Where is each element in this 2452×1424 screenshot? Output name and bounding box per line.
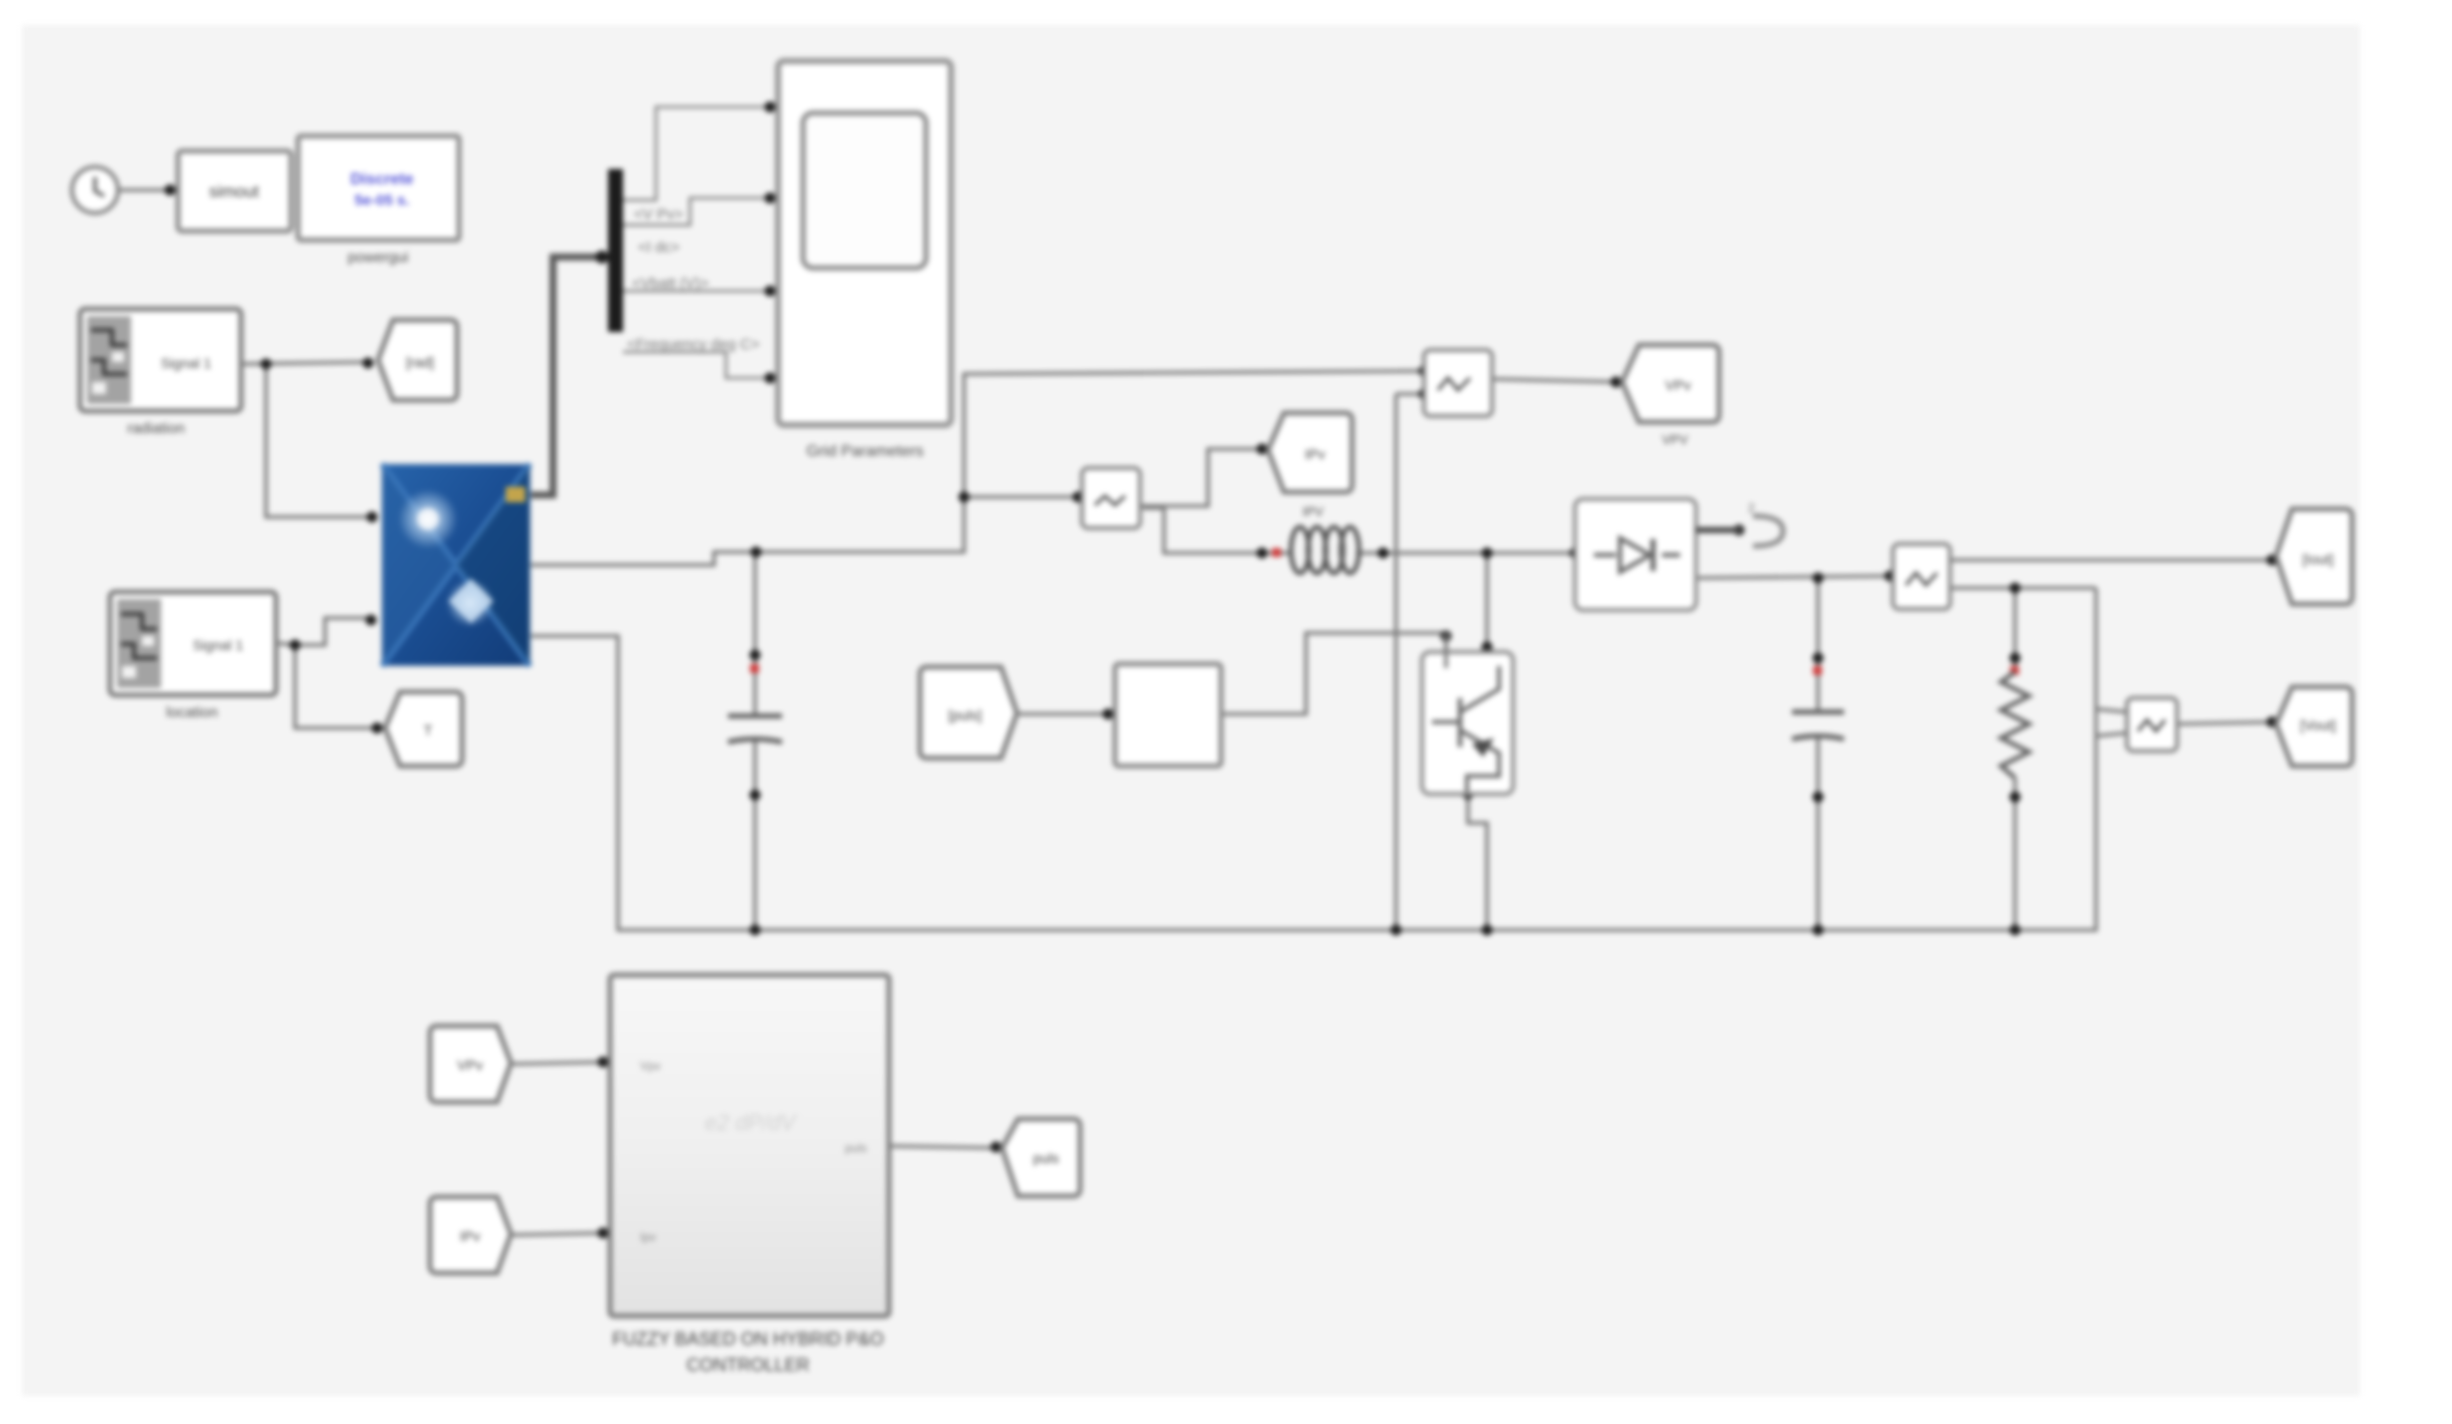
svg-text:[rad]: [rad]: [406, 354, 434, 370]
svg-text:[Vout]: [Vout]: [2300, 717, 2336, 733]
svg-text:Signal 1: Signal 1: [161, 355, 212, 371]
svg-text:e2 dP/dV: e2 dP/dV: [705, 1110, 798, 1135]
svg-text:[puls]: [puls]: [948, 707, 981, 723]
svg-text:2: 2: [1748, 501, 1755, 515]
svg-text:simout: simout: [209, 182, 259, 201]
svg-text:radiation: radiation: [127, 420, 185, 437]
svg-text:IPv: IPv: [460, 1228, 480, 1244]
svg-text:Vpv: Vpv: [640, 1059, 661, 1073]
svg-text:<I dc>: <I dc>: [638, 239, 680, 256]
svg-text:T: T: [424, 722, 433, 738]
svg-text:IPv: IPv: [1305, 446, 1325, 462]
svg-text:powergui: powergui: [348, 249, 409, 266]
svg-text:VPv: VPv: [1665, 377, 1691, 393]
svg-text:<Frequency deg C>: <Frequency deg C>: [627, 336, 760, 353]
svg-text:<Vbatt (V)>: <Vbatt (V)>: [632, 275, 709, 292]
svg-text:VPV: VPV: [1662, 432, 1688, 447]
svg-text:FUZZY BASED ON HYBRID P&O: FUZZY BASED ON HYBRID P&O: [612, 1329, 884, 1349]
svg-text:5e-05 s.: 5e-05 s.: [354, 192, 409, 209]
svg-text:location: location: [166, 704, 218, 721]
svg-text:VPv: VPv: [457, 1057, 483, 1073]
svg-text:Discrete: Discrete: [350, 171, 413, 188]
svg-text:puls: puls: [845, 1141, 867, 1155]
svg-text:Ipv: Ipv: [640, 1230, 656, 1244]
svg-text:puls: puls: [1033, 1150, 1059, 1166]
svg-text:<V Pv>: <V Pv>: [634, 206, 683, 223]
svg-text:Grid Parameters: Grid Parameters: [806, 443, 923, 460]
svg-text:CONTROLLER: CONTROLLER: [686, 1355, 809, 1375]
svg-text:[Iout]: [Iout]: [2302, 551, 2333, 567]
svg-text:Signal 1: Signal 1: [193, 637, 244, 653]
svg-text:IPV: IPV: [1303, 504, 1324, 519]
